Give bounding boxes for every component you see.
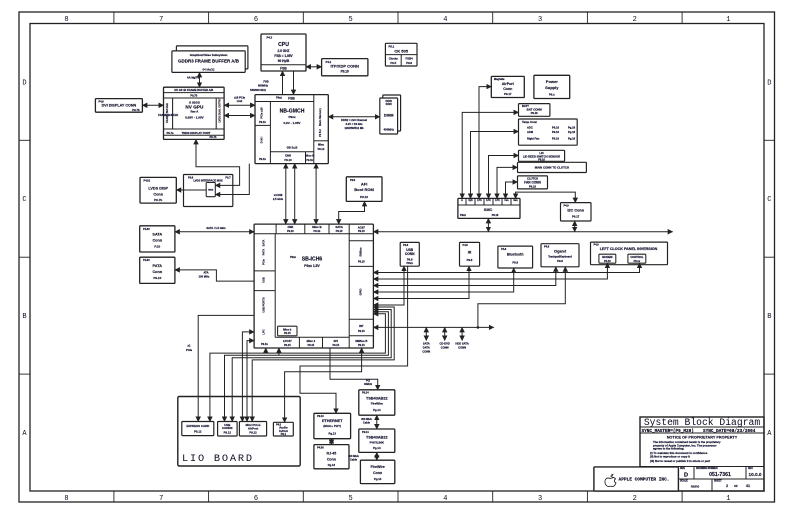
- svg-text:800MHz: 800MHz: [258, 84, 269, 88]
- svg-text:P9.1b: P9.1b: [261, 343, 268, 346]
- svg-text:100 MHz: 100 MHz: [199, 275, 210, 279]
- svg-text:B: B: [767, 313, 771, 321]
- svg-text:SyS: SyS: [468, 200, 473, 202]
- svg-text:CONN: CONN: [458, 346, 466, 350]
- svg-text:Graphics/Video Subsystem: Graphics/Video Subsystem: [190, 53, 228, 57]
- svg-text:P9.10: P9.10: [360, 195, 368, 199]
- svg-text:P4.8: P4.8: [463, 244, 469, 247]
- svg-text:128/256/512 Mb: 128/256/512 Mb: [344, 126, 364, 130]
- svg-text:TMDS DISPLAY PORT: TMDS DISPLAY PORT: [182, 131, 211, 135]
- svg-text:P9.15: P9.15: [332, 344, 339, 347]
- svg-text:Conn: Conn: [153, 192, 163, 196]
- svg-text:P9.15: P9.15: [358, 330, 365, 333]
- svg-text:x4 DMI: x4 DMI: [274, 193, 283, 197]
- svg-text:P9.14: P9.14: [362, 431, 369, 434]
- svg-text:P9.10: P9.10: [336, 230, 343, 233]
- svg-text:P9xx 1.5V: P9xx 1.5V: [304, 264, 320, 268]
- svg-text:LPC47: LPC47: [283, 339, 292, 343]
- svg-text:BAT CONN: BAT CONN: [527, 108, 542, 112]
- svg-text:P9.15: P9.15: [358, 230, 365, 233]
- svg-text:GDDR3 FRAME BUFFER A/B: GDDR3 FRAME BUFFER A/B: [178, 59, 240, 64]
- svg-text:USB: USB: [262, 277, 266, 283]
- svg-text:P9.12: P9.12: [224, 431, 232, 435]
- svg-text:LVDS DUAL OUTPUT: LVDS DUAL OUTPUT: [218, 97, 221, 123]
- svg-text:FSB: FSB: [280, 66, 287, 70]
- svg-text:System Block Diagram: System Block Diagram: [644, 417, 760, 428]
- svg-text:P9.8: P9.8: [512, 260, 518, 264]
- svg-text:P9.16: P9.16: [604, 260, 611, 263]
- svg-text:64 Mx/32: 64 Mx/32: [203, 67, 215, 71]
- svg-text:P9.10: P9.10: [341, 70, 349, 74]
- svg-text:P.10: P.10: [154, 245, 160, 249]
- svg-text:Pg.14: Pg.14: [373, 446, 381, 450]
- svg-text:D: D: [22, 79, 26, 87]
- svg-text:PCIe: PCIe: [186, 348, 192, 352]
- svg-text:OF: OF: [734, 484, 738, 488]
- svg-text:NOTICE OF PROPRIETARY PROPERTY: NOTICE OF PROPRIETARY PROPERTY: [667, 435, 738, 439]
- svg-text:EXPRESS CARD: EXPRESS CARD: [186, 424, 209, 428]
- svg-text:SYNC_DATE=08/23/2004: SYNC_DATE=08/23/2004: [703, 429, 756, 434]
- svg-text:NV G5 4X FRAME BUFFER A/B: NV G5 4X FRAME BUFFER A/B: [174, 88, 213, 92]
- svg-text:Link: Link: [237, 99, 243, 103]
- svg-text:none: none: [691, 484, 700, 488]
- svg-text:P9.7b: P9.7b: [209, 135, 216, 139]
- svg-text:SATA / 1.5 Gb/s: SATA / 1.5 Gb/s: [206, 226, 226, 230]
- svg-text:MagSafe: MagSafe: [494, 78, 505, 81]
- svg-text:1: 1: [726, 16, 730, 24]
- svg-text:SIZE: SIZE: [680, 468, 686, 470]
- svg-text:2: 2: [726, 484, 728, 488]
- svg-text:90 Hy/B: 90 Hy/B: [278, 59, 290, 63]
- svg-text:AA Mg/Td: AA Mg/Td: [187, 76, 200, 80]
- svg-text:P9.x: P9.x: [549, 93, 555, 97]
- svg-text:P9.16: P9.16: [552, 125, 559, 129]
- svg-text:mux: mux: [208, 188, 214, 191]
- svg-text:TSB43AB22: TSB43AB22: [366, 436, 388, 440]
- svg-text:SATA: SATA: [335, 225, 343, 229]
- svg-text:P9.16: P9.16: [552, 130, 559, 134]
- svg-text:P9.17: P9.17: [504, 92, 512, 96]
- svg-text:PHY/LINK: PHY/LINK: [370, 441, 385, 445]
- svg-text:INT: INT: [359, 324, 364, 328]
- svg-text:0.9V - 1.05V: 0.9V - 1.05V: [284, 121, 302, 125]
- svg-text:P9.8: P9.8: [467, 258, 473, 262]
- svg-text:SATA: SATA: [423, 342, 430, 346]
- svg-text:C: C: [767, 196, 771, 204]
- svg-text:Cable: Cable: [363, 421, 370, 424]
- svg-text:PATA: PATA: [262, 249, 266, 256]
- svg-text:5: 5: [349, 495, 353, 503]
- svg-text:P9 B.2: P9 B.2: [319, 129, 322, 137]
- svg-text:CD-DVD: CD-DVD: [440, 342, 450, 346]
- svg-text:6: 6: [254, 495, 258, 503]
- svg-text:DMI: DMI: [288, 225, 294, 229]
- svg-text:LVDS DISP: LVDS DISP: [148, 186, 168, 190]
- svg-text:GB 3x.B: GB 3x.B: [287, 146, 298, 150]
- svg-text:NB-GMCH: NB-GMCH: [280, 108, 305, 114]
- svg-text:Conn: Conn: [152, 270, 162, 274]
- svg-text:Misc B: Misc B: [312, 225, 321, 229]
- svg-text:P9xx: P9xx: [288, 115, 295, 119]
- svg-text:HDD SATA: HDD SATA: [455, 342, 468, 346]
- svg-text:FireWire: FireWire: [370, 465, 384, 469]
- svg-text:LPC: LPC: [495, 200, 500, 202]
- svg-text:Misc 2: Misc 2: [307, 339, 316, 343]
- svg-text:DIMM: DIMM: [384, 113, 394, 117]
- svg-text:DATA: DATA: [423, 346, 430, 350]
- svg-text:P9xx: P9xx: [276, 96, 283, 99]
- svg-text:USB PORTS: USB PORTS: [262, 297, 266, 312]
- svg-text:SMBus: SMBus: [358, 247, 362, 257]
- svg-text:(iii) Not to reveal or publish: (iii) Not to reveal or publish it in who…: [650, 459, 710, 463]
- svg-text:CPU: CPU: [278, 42, 289, 48]
- svg-text:Bluetooth: Bluetooth: [507, 252, 524, 256]
- svg-text:3: 3: [538, 16, 542, 24]
- svg-text:LPC: LPC: [486, 200, 491, 202]
- svg-text:SB-ICH6: SB-ICH6: [302, 257, 323, 263]
- svg-text:CONTROL: CONTROL: [630, 255, 644, 259]
- svg-text:Conn: Conn: [373, 471, 382, 475]
- svg-text:Pg.13: Pg.13: [328, 431, 336, 435]
- svg-text:Pg.14: Pg.14: [373, 408, 381, 412]
- svg-text:P9.8: P9.8: [406, 61, 412, 65]
- svg-text:CONNS: CONNS: [222, 426, 233, 430]
- svg-text:SMC: SMC: [484, 208, 493, 212]
- svg-text:P9.1: P9.1: [281, 433, 287, 436]
- svg-text:400MHz: 400MHz: [384, 128, 395, 132]
- svg-text:Boot ROM: Boot ROM: [354, 187, 374, 192]
- svg-text:LPC: LPC: [262, 329, 266, 334]
- svg-text:P4.56: P4.56: [317, 447, 324, 450]
- svg-text:FAN CONN: FAN CONN: [524, 180, 541, 184]
- svg-text:P9.xx: P9.xx: [634, 260, 641, 263]
- svg-text:P4.8: P4.8: [544, 246, 550, 249]
- svg-text:RJ-45: RJ-45: [327, 452, 337, 456]
- svg-text:x1: x1: [188, 344, 191, 348]
- svg-text:D: D: [767, 79, 771, 87]
- svg-text:10.0.0: 10.0.0: [748, 472, 761, 477]
- svg-text:2.0 GHZ: 2.0 GHZ: [278, 49, 290, 53]
- svg-text:C: C: [22, 196, 26, 204]
- svg-text:5: 5: [349, 16, 353, 24]
- svg-text:P9.10: P9.10: [284, 158, 292, 162]
- svg-text:P9.16: P9.16: [538, 158, 545, 161]
- svg-text:DMI: DMI: [285, 153, 291, 157]
- svg-text:Main Memory: Main Memory: [318, 108, 322, 126]
- svg-text:Conn: Conn: [503, 87, 512, 91]
- svg-text:P4.9: P4.9: [564, 204, 570, 207]
- svg-text:GPIO: GPIO: [358, 289, 362, 296]
- svg-text:P9.16: P9.16: [492, 214, 499, 217]
- svg-text:P9.16: P9.16: [529, 184, 536, 188]
- svg-text:CONN: CONN: [441, 346, 449, 350]
- svg-text:P9.15: P9.15: [284, 344, 291, 347]
- svg-text:PCIe: PCIe: [262, 259, 266, 265]
- svg-text:Misc B: Misc B: [305, 153, 314, 157]
- svg-text:P9.10: P9.10: [153, 276, 161, 280]
- svg-text:I2C Conn: I2C Conn: [567, 209, 584, 213]
- svg-text:P9.7b: P9.7b: [132, 108, 140, 112]
- svg-text:P9.17: P9.17: [572, 215, 580, 219]
- svg-text:P9.1b: P9.1b: [318, 148, 325, 151]
- svg-text:Supply: Supply: [545, 85, 559, 90]
- svg-text:APPLE COMPUTER INC.: APPLE COMPUTER INC.: [619, 477, 670, 483]
- svg-text:ITP/XDP CONN: ITP/XDP CONN: [330, 63, 359, 68]
- svg-text:Right Fan: Right Fan: [527, 136, 540, 140]
- svg-text:P9.15: P9.15: [358, 261, 365, 264]
- svg-text:ETHERNET: ETHERNET: [322, 419, 343, 423]
- svg-text:DRAWING NUMBER: DRAWING NUMBER: [696, 467, 718, 470]
- svg-text:CONN: CONN: [405, 252, 415, 256]
- svg-text:Pg.16: Pg.16: [568, 125, 576, 129]
- svg-text:MAIN CONN TO CLUTCH: MAIN CONN TO CLUTCH: [535, 166, 569, 170]
- svg-text:4: 4: [443, 16, 447, 24]
- svg-text:SDR: SDR: [386, 102, 393, 106]
- svg-text:Conn: Conn: [327, 457, 336, 461]
- svg-text:SATA: SATA: [152, 232, 162, 236]
- svg-text:Rev A: Rev A: [191, 109, 199, 113]
- svg-text:2: 2: [633, 495, 637, 503]
- svg-text:Clocks: Clocks: [389, 56, 399, 60]
- svg-text:P4.60: P4.60: [143, 228, 150, 231]
- svg-text:P9.1b: P9.1b: [259, 158, 266, 161]
- svg-text:Pg.16: Pg.16: [568, 136, 576, 140]
- svg-text:Misc b: Misc b: [283, 327, 292, 331]
- svg-text:P9.7a: P9.7a: [167, 131, 174, 135]
- svg-text:P4.8: P4.8: [403, 244, 409, 247]
- svg-text:AFI: AFI: [361, 181, 367, 186]
- svg-text:ADC: ADC: [527, 125, 533, 129]
- svg-text:ADM: ADM: [527, 130, 534, 134]
- svg-text:Pg.13: Pg.13: [328, 463, 336, 467]
- svg-text:P9.7b: P9.7b: [154, 198, 162, 202]
- svg-text:LVDS INTERFACE MUX: LVDS INTERFACE MUX: [193, 178, 223, 182]
- svg-text:P9.15: P9.15: [308, 344, 315, 347]
- svg-text:P9xx: P9xx: [460, 214, 467, 217]
- svg-text:P9.1b: P9.1b: [306, 159, 313, 162]
- svg-text:B: B: [22, 313, 26, 321]
- svg-text:CONN: CONN: [422, 350, 430, 354]
- svg-text:FireWire: FireWire: [371, 402, 383, 406]
- svg-text:SHEET: SHEET: [714, 481, 722, 483]
- svg-text:0.95V - 1.05V: 0.95V - 1.05V: [185, 116, 205, 120]
- svg-text:Power: Power: [546, 79, 558, 84]
- svg-text:TSB43AB22: TSB43AB22: [366, 397, 388, 401]
- svg-text:REV.: REV.: [748, 468, 753, 470]
- svg-text:Sen: Sen: [513, 200, 518, 202]
- svg-text:(MAC+ PHY): (MAC+ PHY): [323, 424, 341, 428]
- svg-text:Fan: Fan: [504, 200, 509, 202]
- svg-text:1: 1: [726, 495, 730, 503]
- svg-text:8: 8: [64, 495, 68, 503]
- svg-text:P9xx: P9xx: [406, 261, 413, 265]
- svg-text:Conn: Conn: [152, 238, 162, 242]
- svg-text:CK 505: CK 505: [394, 48, 408, 53]
- svg-text:LIO BOARD: LIO BOARD: [182, 453, 254, 465]
- svg-text:2: 2: [633, 16, 637, 24]
- svg-text:Cigaret: Cigaret: [554, 250, 567, 254]
- svg-text:P4.8: P4.8: [501, 248, 507, 251]
- svg-text:FSB = 1.05V: FSB = 1.05V: [274, 54, 293, 58]
- svg-text:7: 7: [159, 495, 163, 503]
- svg-text:P9.16: P9.16: [531, 111, 538, 115]
- svg-text:P9.12: P9.12: [194, 430, 202, 434]
- svg-text:7: 7: [159, 16, 163, 24]
- svg-text:x16 PCIe: x16 PCIe: [234, 95, 246, 99]
- svg-text:PCIe x16: PCIe x16: [260, 107, 264, 119]
- svg-text:LEFT CLOCK PANEL INVERSION: LEFT CLOCK PANEL INVERSION: [600, 247, 658, 251]
- svg-text:8: 8: [64, 16, 68, 24]
- svg-text:Pg.14: Pg.14: [374, 477, 382, 481]
- svg-text:2.5 Gb/s: 2.5 Gb/s: [273, 197, 284, 201]
- svg-text:P9.15: P9.15: [358, 344, 365, 347]
- svg-text:P4.60: P4.60: [143, 259, 150, 262]
- svg-text:3.2V = 64 bits: 3.2V = 64 bits: [346, 122, 363, 126]
- svg-text:P9.1b: P9.1b: [314, 230, 321, 233]
- svg-text:33MHz: 33MHz: [364, 383, 373, 386]
- svg-text:P9.8: P9.8: [557, 259, 563, 263]
- svg-text:FSB4: FSB4: [406, 56, 414, 60]
- svg-text:Pg.16: Pg.16: [568, 130, 576, 134]
- svg-text:SMBus B: SMBus B: [355, 339, 367, 343]
- svg-text:Misc: Misc: [318, 142, 325, 146]
- svg-text:P9.13: P9.13: [317, 415, 324, 418]
- svg-text:FRAME BUFFER: FRAME BUFFER: [166, 103, 169, 123]
- svg-text:41: 41: [746, 484, 750, 488]
- svg-text:IR: IR: [468, 250, 472, 254]
- svg-text:SPI: SPI: [334, 339, 339, 343]
- svg-text:533/800 MHz: 533/800 MHz: [250, 88, 266, 92]
- svg-text:P9.14: P9.14: [362, 392, 369, 395]
- svg-text:4: 4: [443, 495, 447, 503]
- svg-text:SCALE: SCALE: [680, 480, 688, 483]
- svg-text:Cable: Cable: [350, 458, 357, 461]
- svg-text:AirPort: AirPort: [502, 82, 515, 86]
- svg-text:P9.10: P9.10: [287, 230, 294, 233]
- svg-text:MODEM: MODEM: [602, 255, 613, 259]
- svg-text:SYNC_MASTER=(P9_M28): SYNC_MASTER=(P9_M28): [642, 429, 694, 434]
- svg-text:6: 6: [254, 16, 258, 24]
- svg-text:P9xx: P9xx: [290, 256, 297, 259]
- svg-text:P4.9: P4.9: [594, 244, 600, 247]
- svg-text:P9.6: P9.6: [350, 179, 356, 182]
- svg-text:P4.3: P4.3: [267, 36, 273, 40]
- svg-text:P9.7: P9.7: [225, 176, 231, 179]
- svg-text:DDR2 = 2x3 Channel: DDR2 = 2x3 Channel: [341, 118, 367, 122]
- svg-text:PATA: PATA: [153, 264, 163, 268]
- svg-text:P9.1b: P9.1b: [259, 121, 266, 124]
- svg-text:P9.75: P9.75: [190, 94, 197, 98]
- svg-text:SATA: SATA: [262, 240, 266, 247]
- svg-text:Temp Conn: Temp Conn: [522, 120, 537, 124]
- svg-text:3: 3: [538, 495, 542, 503]
- svg-text:051-7361: 051-7361: [709, 472, 731, 478]
- svg-text:P9.5: P9.5: [390, 61, 396, 65]
- svg-text:P9.16: P9.16: [552, 136, 559, 140]
- svg-text:D M I: D M I: [260, 137, 264, 144]
- svg-text:ATA: ATA: [203, 271, 208, 275]
- svg-text:D: D: [684, 472, 688, 478]
- svg-text:FSB: FSB: [288, 97, 295, 101]
- svg-text:AC97: AC97: [358, 226, 366, 230]
- svg-text:FSB: FSB: [263, 79, 268, 83]
- svg-text:P9.15: P9.15: [284, 332, 291, 335]
- svg-text:P4.61: P4.61: [144, 179, 151, 182]
- svg-text:LPC: LPC: [477, 200, 482, 202]
- svg-text:P9.12: P9.12: [249, 431, 257, 435]
